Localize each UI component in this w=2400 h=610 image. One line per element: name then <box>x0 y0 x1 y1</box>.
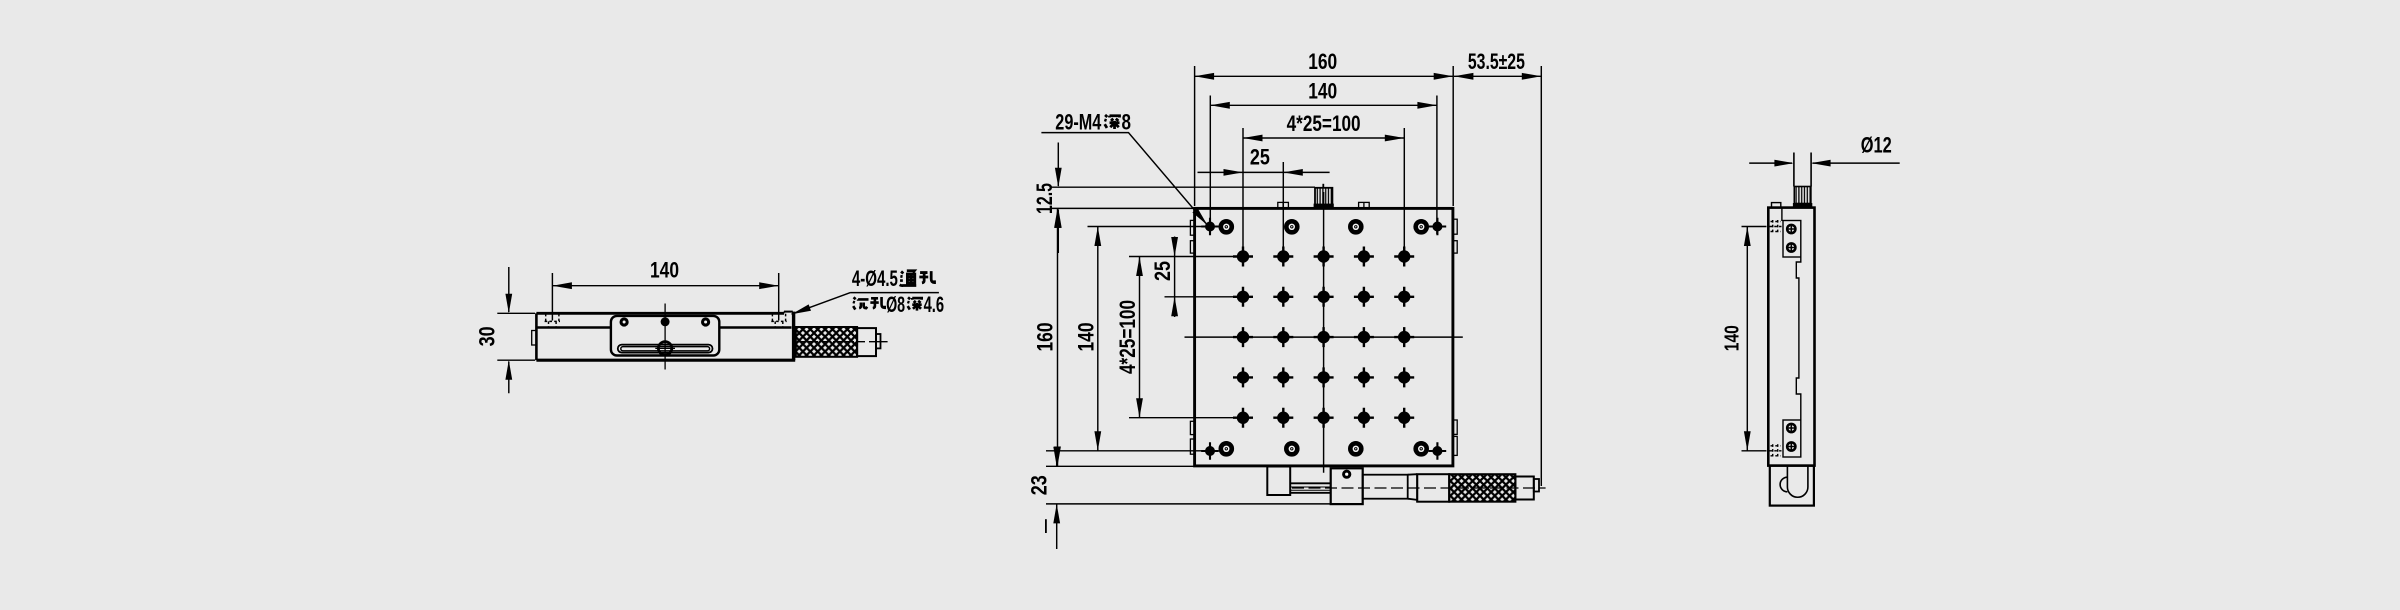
svg-text:4.6: 4.6 <box>924 292 945 317</box>
svg-text:25: 25 <box>1150 261 1175 281</box>
svg-text:140: 140 <box>1722 325 1744 351</box>
svg-text:160: 160 <box>1033 323 1058 352</box>
svg-text:140: 140 <box>1074 323 1099 352</box>
svg-text:Ø8: Ø8 <box>886 292 905 317</box>
svg-text:23: 23 <box>1027 475 1052 495</box>
svg-text:53.5±25: 53.5±25 <box>1468 49 1525 74</box>
svg-text:140: 140 <box>1308 79 1337 104</box>
svg-text:160: 160 <box>1308 49 1337 74</box>
svg-text:140: 140 <box>650 258 679 283</box>
svg-text:4*25=100: 4*25=100 <box>1115 300 1140 374</box>
svg-text:29-M4: 29-M4 <box>1055 109 1102 134</box>
svg-text:8: 8 <box>1122 109 1132 134</box>
svg-text:Ø12: Ø12 <box>1861 133 1892 158</box>
svg-text:25: 25 <box>1250 145 1270 170</box>
svg-text:4*25=100: 4*25=100 <box>1287 111 1361 136</box>
svg-text:30: 30 <box>475 326 500 346</box>
svg-text:12.5: 12.5 <box>1032 183 1057 214</box>
svg-text:4-Ø4.5: 4-Ø4.5 <box>852 266 898 291</box>
